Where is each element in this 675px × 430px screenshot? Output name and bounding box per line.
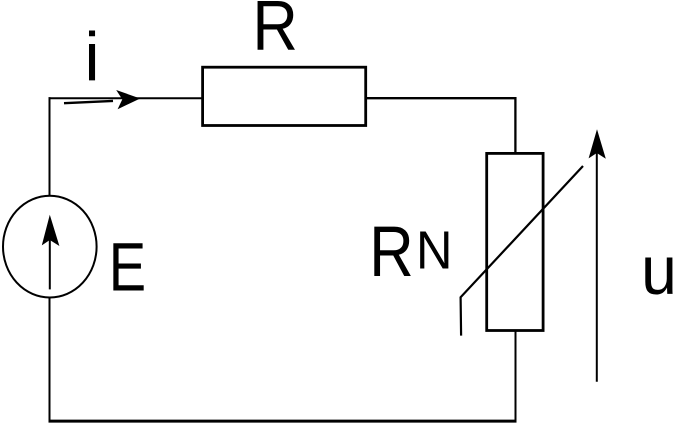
wire top-right segment with corner down to RN [366, 98, 516, 153]
svg-text:R: R [252, 0, 298, 65]
svg-text:N: N [416, 221, 452, 281]
bottom wire [49, 420, 517, 423]
svg-text:E: E [109, 229, 146, 306]
svg-text:R: R [369, 213, 413, 292]
wire left bottom segment [49, 298, 51, 423]
varistor diagonal arrow [461, 166, 583, 336]
varistor RN body [487, 153, 543, 330]
wire RN bottom [515, 330, 517, 422]
voltage arrow u shaft [596, 152, 598, 382]
voltage arrow u head [589, 129, 606, 159]
wire top-left segment [49, 97, 204, 99]
current arrow i head [116, 90, 140, 109]
current arrow i shaft [64, 101, 113, 103]
wire left top segment [49, 97, 51, 195]
svg-text:u: u [641, 233, 675, 309]
source E arrow head [42, 215, 60, 246]
svg-text:i: i [84, 19, 99, 96]
resistor R [203, 67, 366, 125]
source E arrow shaft [49, 238, 51, 289]
source E circle [3, 196, 97, 298]
